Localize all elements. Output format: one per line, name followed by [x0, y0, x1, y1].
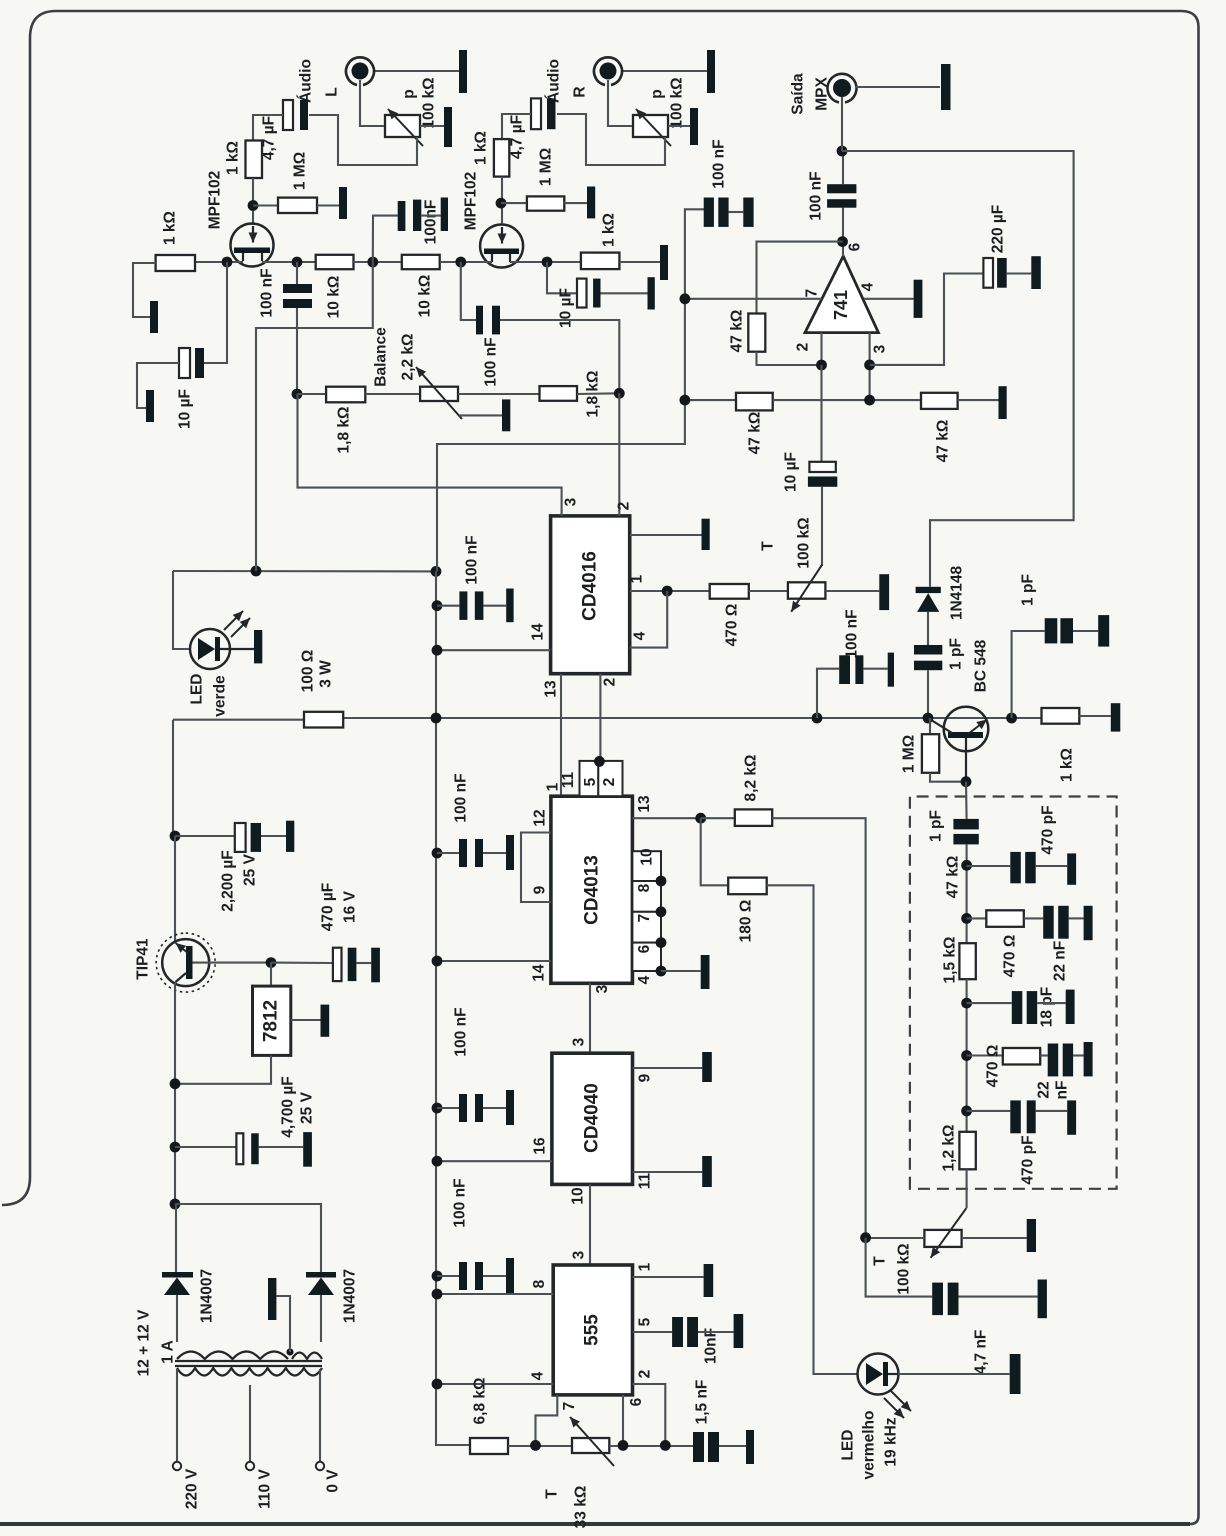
svg-text:1: 1 [545, 782, 562, 791]
node pin1-4 [662, 586, 673, 597]
wire 1.8k R to node [577, 392, 619, 395]
capacitor 18 pF [967, 1002, 1012, 1004]
resistor 1 M (L gate bias) [278, 198, 317, 213]
wire 470 to trimmer [749, 590, 788, 592]
svg-text:1 MΩ: 1 MΩ [538, 148, 555, 186]
pin 11 wire CD4040 [633, 1171, 703, 1173]
svg-text:470 µF: 470 µF [320, 883, 337, 932]
transistor BC548 [944, 707, 989, 752]
diode 1N4007 (right) [306, 1272, 336, 1278]
node 741 supply bus [680, 293, 691, 304]
resistor 470 ohm [710, 584, 749, 599]
wire R drain to 10uF [547, 262, 577, 293]
ground (4.7nF) [1038, 1280, 1047, 1319]
pins 12-9 loop CD4013 [521, 833, 551, 903]
capacitor 4.700 uF 25V [236, 1133, 243, 1164]
resistor 10 k (R mix) [402, 255, 440, 269]
wire between 10k resistors [354, 261, 402, 263]
svg-text:p: p [401, 89, 418, 98]
wire 6.8k to trimmer 33k [508, 1445, 572, 1447]
wire pot R wiper to 4.7uF [557, 114, 665, 165]
svg-text:1 kΩ: 1 kΩ [1059, 748, 1076, 782]
pin 1 wire CD4016 [630, 590, 710, 592]
svg-text:1 kΩ: 1 kΩ [225, 141, 242, 175]
svg-text:1N4148: 1N4148 [949, 565, 966, 620]
svg-text:MPF102: MPF102 [463, 172, 480, 231]
ground (555 pin1) [704, 1264, 714, 1297]
svg-text:CD4016: CD4016 [580, 551, 601, 621]
ground (470pF E) [1067, 1100, 1076, 1134]
resistor 470 ohm (D) [967, 1054, 1003, 1056]
svg-text:470 pF: 470 pF [1040, 805, 1057, 854]
svg-text:8: 8 [636, 883, 653, 892]
op-amp 741 [805, 256, 878, 332]
svg-text:4: 4 [860, 282, 877, 291]
svg-text:47 kΩ: 47 kΩ [747, 412, 764, 455]
node raw-7812 [170, 1078, 181, 1089]
ground (741 pin4) [914, 280, 923, 318]
capacitor 100 nF (555 decoupling) [437, 1275, 459, 1277]
node 100nF-rail [812, 713, 823, 724]
svg-text:1 kΩ: 1 kΩ [601, 213, 618, 247]
resistor 47 k (divider upper) [736, 393, 773, 411]
node bus pin14 4013 [432, 956, 443, 967]
wire gate node to 1M [253, 204, 278, 206]
svg-text:Áudio: Áudio [546, 59, 563, 103]
pin 1 wire 555 [633, 1276, 704, 1278]
wire pin2 to 10uF [820, 365, 822, 462]
svg-text:22: 22 [1036, 1081, 1053, 1098]
node pin3 [864, 360, 875, 371]
svg-text:2: 2 [616, 502, 633, 511]
node divider-bus [680, 395, 691, 406]
node R drain [542, 257, 553, 268]
capacitor 100 nF (CD4013 decoupling) [437, 852, 459, 854]
wire balance wiper to ground [459, 414, 502, 416]
svg-text:10nF: 10nF [703, 1328, 720, 1364]
terminal 220V [173, 1462, 181, 1470]
svg-text:6,8 kΩ: 6,8 kΩ [472, 1378, 489, 1425]
wire 1k to gate node R [501, 177, 503, 224]
pin 2 bottom wire CD4016 to CD4013 [599, 674, 601, 762]
svg-text:2: 2 [601, 778, 618, 787]
svg-text:100 nF: 100 nF [464, 535, 481, 584]
wire 1k R source to ground [619, 261, 660, 263]
ground (CD4013 cap) [506, 835, 514, 870]
capacitor 10 nF [672, 1317, 683, 1347]
resistor 1 M (R gate bias) [527, 196, 564, 210]
resistor 1,8 k (left) [326, 387, 365, 403]
wire +12V vertical bus [436, 571, 470, 1445]
pin 9 wire CD4040 [633, 1067, 703, 1069]
svg-text:4: 4 [632, 631, 649, 640]
pin 10 wire CD4040 to 555 [589, 1184, 591, 1265]
svg-text:11: 11 [560, 771, 577, 788]
svg-text:L: L [324, 87, 341, 96]
wire 33k to 1.5nF [609, 1445, 693, 1447]
transformer 12+12V 1A [175, 1360, 322, 1362]
capacitor 100 nF (CD4040 decoupling) [437, 1107, 459, 1109]
svg-text:T: T [760, 541, 777, 551]
node R source [455, 257, 466, 268]
trimpot T 33 k [572, 1438, 609, 1453]
wire 10uF to trimmer wiper [821, 487, 823, 566]
wire LED to ground [898, 1373, 1010, 1375]
svg-text:47 kΩ: 47 kΩ [945, 856, 962, 899]
node balance right [614, 388, 625, 399]
wire main +12 horizontal rail [173, 719, 304, 721]
node bus pin4 [432, 1379, 443, 1390]
wire trimmer to ground [825, 590, 879, 592]
node pin13 [695, 813, 706, 824]
capacitor 4,7 uF (R input coupling) [531, 98, 541, 129]
svg-text:1,5 kΩ: 1,5 kΩ [942, 937, 959, 984]
svg-text:180 Ω: 180 Ω [738, 900, 755, 943]
svg-text:100 Ω: 100 Ω [300, 650, 317, 693]
svg-text:14: 14 [531, 964, 548, 982]
node L source [222, 257, 233, 268]
jack Saida MPX [833, 79, 851, 97]
wire 2200uF to ground [261, 835, 286, 837]
wire 1M to ground [317, 204, 339, 206]
svg-text:25 V: 25 V [242, 853, 259, 886]
capacitor 100 nF (MPX output) [827, 184, 856, 193]
node bus 100nF-4016 [432, 600, 443, 611]
ground (pin9) [702, 1052, 712, 1082]
svg-text:18 pF: 18 pF [1039, 987, 1056, 1027]
svg-text:47 kΩ: 47 kΩ [935, 420, 952, 463]
svg-text:CD4040: CD4040 [582, 1083, 603, 1153]
capacitor 100 nF (pilot filter) [817, 669, 839, 718]
resistor 1,8 k (right) [540, 386, 578, 401]
IC CD4016 [551, 516, 630, 674]
wire R source to 100nF [461, 262, 476, 320]
svg-text:Saída: Saída [790, 73, 807, 115]
ground (balance wiper) [502, 399, 510, 431]
capacitor 4,7 uF (L input coupling) [283, 100, 293, 130]
ground (4700uF) [303, 1132, 312, 1167]
jack Audio R [600, 63, 617, 80]
svg-text:6: 6 [636, 944, 653, 953]
pin 4 wire 555 [437, 1383, 553, 1385]
svg-text:1 A: 1 A [160, 1340, 177, 1364]
svg-text:100 kΩ: 100 kΩ [421, 77, 438, 128]
node MPX out [837, 146, 848, 157]
svg-text:100 nF: 100 nF [844, 609, 861, 658]
svg-text:1: 1 [629, 574, 646, 583]
wire jack L pin to pot [360, 80, 385, 126]
capacitor 100 nF (L coupling) [283, 284, 312, 293]
ground (470pF A) [1067, 853, 1076, 884]
ground (center tap) [268, 1278, 276, 1320]
ground (trimmer B) [1027, 1219, 1036, 1252]
ground (1pF emitter) [1098, 615, 1109, 647]
node bus pin8 [432, 1289, 443, 1300]
svg-text:TIP41: TIP41 [135, 938, 152, 980]
transformer secondary winding [177, 1352, 288, 1360]
capacitor 220 uF [983, 258, 993, 288]
svg-text:1 pF: 1 pF [948, 638, 965, 670]
svg-text:0 V: 0 V [325, 1469, 342, 1493]
IC 555 [553, 1265, 632, 1395]
node pin6 junction [618, 1440, 629, 1451]
ground (1k emitter) [1111, 703, 1121, 731]
ground (220uF) [1031, 256, 1041, 289]
svg-text:470 pF: 470 pF [1020, 1135, 1037, 1184]
resistor 470 ohm (B) [967, 917, 987, 919]
svg-text:4,700 µF: 4,700 µF [280, 1076, 297, 1138]
svg-text:3: 3 [872, 344, 889, 353]
svg-text:100 nF: 100 nF [452, 1178, 469, 1227]
wire primary 110V tap [249, 1385, 251, 1462]
svg-text:14: 14 [530, 623, 547, 641]
svg-text:10: 10 [639, 848, 656, 865]
node filter A [961, 860, 972, 871]
resistor 180 ohm [728, 878, 767, 895]
wire 47k to pin2 [757, 352, 822, 365]
svg-text:Áudio: Áudio [298, 59, 315, 103]
svg-text:33 kΩ: 33 kΩ [573, 1486, 590, 1529]
svg-text:2: 2 [602, 678, 619, 687]
wire 1M to collector [930, 773, 966, 782]
wire 180 to LED vermelho [767, 885, 857, 1374]
svg-text:1,5 nF: 1,5 nF [694, 1380, 711, 1425]
node filter B [961, 913, 972, 924]
wire pot L wiper to 4.7uF [309, 115, 417, 165]
svg-text:19 kHz: 19 kHz [883, 1417, 900, 1466]
svg-text:10 µF: 10 µF [177, 389, 194, 429]
node raw-4700uF [170, 1142, 181, 1153]
pin 4 loop CD4016 [630, 591, 668, 648]
jack Audio L [352, 63, 369, 80]
svg-text:LED: LED [189, 674, 206, 705]
wire 7812 gnd pin [291, 1019, 321, 1021]
svg-text:1 pF: 1 pF [1020, 574, 1037, 606]
node rail end at bus [431, 566, 442, 577]
resistor 1,2 k (filter) [959, 1132, 975, 1170]
ground (CD4016 cap) [506, 589, 513, 623]
wire MPX jack to ground [856, 86, 940, 88]
pin 2 wire CD4016 [618, 393, 620, 516]
svg-text:MPF102: MPF102 [207, 171, 224, 230]
wire 220uF to ground [1007, 272, 1032, 274]
svg-text:10: 10 [570, 1187, 587, 1204]
wire supply link 741 bus to +12 bus [437, 209, 704, 571]
pin 14 wire CD4013 [437, 960, 551, 962]
svg-text:10 µF: 10 µF [558, 288, 575, 328]
ground (CD4040 cap) [506, 1090, 514, 1125]
wire JFET R source lead [440, 261, 492, 263]
svg-text:4,7 nF: 4,7 nF [973, 1330, 990, 1375]
wire 1M R to ground [564, 202, 587, 204]
wire pin ladder to ground [661, 970, 701, 972]
transformer primary winding [177, 1368, 322, 1376]
node pin2 [816, 360, 827, 371]
resistor 8,2 k [701, 817, 735, 819]
svg-text:741: 741 [831, 290, 851, 320]
svg-text:100 nF: 100 nF [259, 268, 276, 317]
wire 7812 input to raw rail [175, 1055, 271, 1083]
svg-text:7: 7 [804, 289, 821, 298]
pin 6 wire (741 output) [842, 208, 844, 257]
capacitor 470 pF (E) [967, 1110, 1011, 1112]
ground (pot R) [690, 108, 698, 145]
pin 3 wire CD4016 [298, 394, 562, 516]
svg-text:2,200 µF: 2,200 µF [220, 850, 237, 912]
wire 100nF to ground [729, 211, 744, 213]
wire LED verde feed [173, 571, 190, 649]
svg-text:47 kΩ: 47 kΩ [729, 310, 746, 353]
svg-text:1: 1 [637, 1262, 654, 1271]
node bus 100nF-555 [432, 1271, 443, 1282]
ground (divider) [999, 386, 1007, 419]
wire 4.7uF R to 1k gate resistor [502, 114, 531, 139]
ground (741 supply cap) [743, 198, 753, 227]
wire trimmer right to ground [962, 1237, 1027, 1239]
capacitor 2.200 uF 25V [235, 823, 246, 852]
capacitor 1 pF (pilot) [914, 645, 942, 655]
svg-text:100nF: 100nF [423, 200, 440, 245]
wire JFET R drain lead [510, 261, 581, 263]
IC CD4040 [552, 1053, 633, 1184]
svg-text:6: 6 [628, 1397, 645, 1406]
pin 13 wire CD4016 to CD4013 [560, 674, 562, 797]
wire pot L to ground [420, 125, 447, 127]
svg-text:CD4013: CD4013 [582, 855, 603, 925]
LED verde [190, 629, 230, 669]
wire gate node R to 1M [501, 202, 527, 204]
node filter C [961, 998, 972, 1009]
node pin7 junction [530, 1440, 541, 1451]
wire primary 220V terminal [176, 1369, 178, 1462]
IC CD4013 [551, 796, 633, 983]
svg-text:1 pF: 1 pF [928, 810, 945, 842]
svg-text:T: T [872, 1256, 889, 1266]
pin 2 wire 555 [633, 1384, 666, 1445]
node bus 100nF-4013 [432, 848, 443, 859]
capacitor 22 nF (B) [1024, 917, 1043, 919]
ground (18pF) [1066, 990, 1075, 1024]
ground (LED vermelho) [1010, 1354, 1021, 1394]
wire 100nF R to balance node [500, 320, 619, 393]
node filter D [961, 1050, 972, 1061]
wire 1.8k L to balance pot [365, 393, 420, 395]
wire filter output [966, 1169, 968, 1208]
svg-text:4: 4 [530, 1371, 547, 1380]
pin 3 wire CD4013 to CD4040 [589, 983, 591, 1053]
wire primary 0V terminal [319, 1369, 321, 1462]
svg-text:10 µF: 10 µF [783, 452, 800, 492]
svg-text:2,2 kΩ: 2,2 kΩ [400, 334, 417, 381]
wire jack R pin to pot [608, 80, 633, 126]
svg-text:470 Ω: 470 Ω [985, 1045, 1002, 1088]
regulator 7812 [270, 963, 272, 987]
wire 1k source to ground [133, 263, 156, 317]
node pin ladder dots [656, 876, 667, 887]
resistor 10 k (L mix) [316, 255, 354, 269]
svg-text:9: 9 [637, 1073, 654, 1082]
resistor 1 k (R source) [581, 253, 620, 270]
svg-text:1 kΩ: 1 kΩ [473, 131, 490, 165]
pin boxes 10 8 7 6 4 (CD4013 right) [632, 851, 661, 881]
node bus pin14 [432, 645, 443, 656]
svg-text:100 nF: 100 nF [483, 337, 500, 386]
svg-text:T: T [544, 1489, 561, 1499]
svg-text:13: 13 [636, 795, 653, 813]
transistor MPF102 (R JFET) [480, 225, 523, 268]
svg-text:nF: nF [1054, 1081, 1071, 1100]
wire L source to 10uF [204, 262, 227, 363]
transformer center tap to ground [286, 1348, 293, 1355]
wire diode to 1pF [927, 612, 929, 645]
resistor 1 k (BC548 emitter) [1042, 708, 1080, 724]
ground (MPX jack) [941, 64, 951, 110]
pin 14 wire CD4016 [437, 649, 551, 651]
svg-text:p: p [649, 89, 666, 98]
svg-text:MPX: MPX [814, 77, 831, 111]
svg-text:4: 4 [636, 975, 653, 984]
pin 2 stub [820, 333, 822, 365]
svg-text:7: 7 [561, 1402, 578, 1411]
resistor 1 k (L source) [156, 255, 195, 271]
svg-text:11: 11 [637, 1172, 654, 1189]
transistor MPF102 (L JFET) [231, 224, 274, 267]
svg-text:7: 7 [636, 914, 653, 923]
ground (1.5nF) [746, 1430, 754, 1464]
svg-text:100 kΩ: 100 kΩ [896, 1243, 913, 1294]
capacitor 100 nF (CD4016 decoupling) [437, 605, 459, 607]
capacitor 100 nF (mid decoupling) [398, 201, 406, 231]
pin 5 wire 555 [633, 1331, 673, 1333]
capacitor 1 pF (filter top) [953, 819, 978, 830]
svg-text:220 µF: 220 µF [990, 205, 1007, 254]
wire to 2200uF [175, 835, 235, 837]
svg-text:3: 3 [571, 1037, 588, 1046]
svg-text:100 nF: 100 nF [453, 1007, 470, 1056]
wire 1k to ground [1079, 715, 1111, 717]
potentiometer p 100k (L volume) [385, 115, 420, 137]
pin 6 wire 555 [622, 1395, 624, 1446]
node L gate [248, 200, 259, 211]
transistor TIP41 [174, 836, 176, 941]
wire balance pot to 1.8k R [458, 393, 540, 395]
ground (2200uF) [286, 821, 294, 852]
svg-text:100 kΩ: 100 kΩ [669, 77, 686, 128]
wire mid node to 100nF mid [373, 216, 398, 262]
ground (1M R) [587, 187, 595, 219]
wire 100nF out to jack node [842, 151, 844, 184]
terminal 110V [246, 1462, 254, 1470]
ground (jack L sleeve) [459, 50, 467, 93]
svg-text:220 V: 220 V [184, 1468, 201, 1509]
node L drain [292, 257, 303, 268]
node R gate [496, 198, 507, 209]
svg-text:110 V: 110 V [257, 1469, 274, 1509]
ground (CD4016 top right) [702, 519, 710, 550]
svg-text:100 kΩ: 100 kΩ [796, 517, 813, 568]
wire TIP41 emitter to rail [172, 720, 174, 836]
pin 3 stub [869, 333, 871, 401]
wire trimmer left to node [866, 1237, 925, 1239]
ground (pin11) [702, 1156, 712, 1187]
ground (jack R sleeve) [707, 50, 715, 93]
ground (10uF L) [146, 390, 154, 422]
pin 4 wire to ground [864, 298, 914, 300]
wire 1k to gate node [252, 178, 254, 225]
wire drain bus to rail [256, 262, 373, 571]
resistor 1 M (BC548) [929, 718, 931, 734]
capacitor 470 uF 16V [333, 948, 342, 981]
